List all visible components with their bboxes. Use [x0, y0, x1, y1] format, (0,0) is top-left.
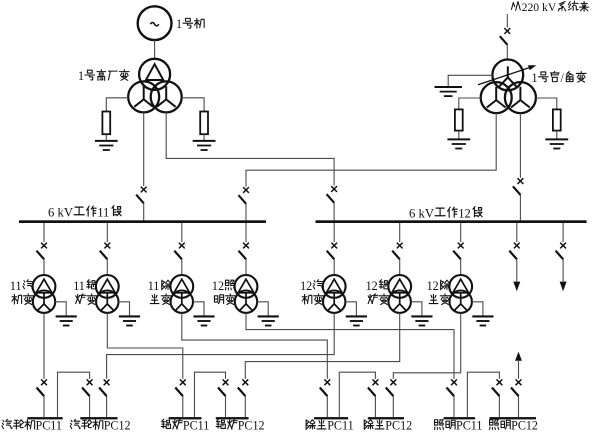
wire breaker to transformer (T12g 12锅炉变) — [399, 259, 401, 275]
ground of T12z 12照明变 — [258, 316, 279, 325]
ground of T12q 12汽机变 — [346, 316, 367, 325]
svg-text:6 kV: 6 kV — [48, 205, 74, 219]
label 锅炉PC12 — [216, 419, 264, 433]
label T12z 12照明变 line1 — [212, 279, 235, 293]
arrester R1 (left of T1H) — [102, 112, 110, 135]
breaker (汽轮机PC11 incoming) — [37, 379, 47, 396]
wire 12汽机变 to 汽轮机PC12 breaker — [107, 313, 335, 379]
transformer T11g 11锅炉变 LV winding (wye) — [96, 291, 118, 313]
feeder breaker (T11g 11锅炉变) — [100, 243, 110, 260]
ground of T11c 11除尘变 — [193, 316, 214, 325]
wire breaker to bus (照明PC12 incoming) — [518, 396, 520, 417]
wire bus to breaker (spare feeder 2 bus 12) — [562, 223, 564, 242]
feeder breaker (T12z 12照明变) — [239, 243, 249, 260]
breaker QF0 on 220kV lead — [500, 28, 510, 45]
svg-text:1: 1 — [176, 17, 182, 31]
label T11q 11汽机变 line1 — [10, 279, 33, 293]
svg-text:12: 12 — [300, 279, 312, 293]
transformer T1H LV winding A (wye) — [128, 81, 159, 112]
wire T11c 11除尘变 to ground — [193, 302, 204, 317]
svg-text:12: 12 — [427, 279, 439, 293]
svg-text:11: 11 — [148, 279, 160, 293]
bus 汽轮机PC11 — [27, 417, 62, 419]
wire 12照明变 to 照明PC11 breaker — [246, 313, 454, 379]
wire breaker to transformer (T12q 12汽机变) — [333, 259, 335, 275]
svg-text:PC11: PC11 — [456, 419, 482, 433]
down arrow (spare feeder 2 bus 12) — [560, 282, 567, 292]
wire T1S neutral to ground — [448, 75, 492, 87]
svg-text:11: 11 — [73, 279, 85, 293]
label 1号启/备变 — [532, 71, 587, 85]
transformer T12c 12除尘变 HV winding (delta) — [449, 275, 472, 298]
bus 除尘PC12 — [368, 417, 404, 419]
svg-text:PC11: PC11 — [327, 419, 353, 433]
bus 6kV section 11 — [19, 220, 266, 223]
wire breaker to transformer (T12c 12除尘变) — [460, 259, 462, 275]
label T11c 11除尘变 line1 — [148, 279, 171, 293]
wire T1H winding A down to bus 11 — [143, 112, 145, 186]
transformer T11g 11锅炉变 HV winding (delta) — [96, 275, 119, 298]
label 除尘PC11 — [306, 419, 354, 433]
wire QF1 to bus 11 — [143, 203, 145, 220]
bus 除尘PC11 — [314, 417, 348, 419]
bus 照明PC11 — [444, 417, 476, 419]
wire T1S winding A to arrester — [459, 98, 481, 109]
breaker (锅炉PC12 incoming) — [238, 379, 248, 396]
svg-text:11: 11 — [97, 205, 109, 219]
svg-text:PC12: PC12 — [385, 419, 412, 433]
label 从220 kV系统来 — [511, 1, 588, 14]
breaker (汽轮机PC12 incoming) — [99, 379, 109, 396]
transformer T1S 1号启/备变 HV winding (wye) — [492, 60, 523, 91]
ground under R3 — [447, 139, 470, 148]
breaker (除尘PC11 incoming) — [320, 379, 330, 396]
wire QF4 to bus 12 — [519, 195, 521, 221]
label T11q 11汽机变 line2 — [12, 294, 33, 305]
transformer T11q 11汽机变 HV winding (delta) — [33, 275, 56, 298]
wire breaker to transformer (T11q 11汽机变) — [43, 259, 45, 275]
generator G1 (1号机) — [138, 6, 172, 40]
svg-text:6 kV: 6 kV — [409, 206, 435, 220]
transformer T1S LV winding B (wye) — [505, 82, 536, 113]
breaker (除尘PC12 tie) — [368, 379, 378, 396]
wire breaker to transformer (T12z 12照明变) — [245, 259, 247, 275]
wire breaker to bus (照明PC12 tie) — [498, 396, 500, 417]
label 汽轮机PC11 — [2, 419, 62, 433]
feeder breaker (T12g 12锅炉变) — [392, 243, 402, 260]
label 除尘PC12 — [364, 419, 412, 433]
wire bus to feeder breaker (T11g 11锅炉变) — [106, 223, 108, 242]
svg-text:220 kV: 220 kV — [522, 1, 557, 14]
wire T11g 11锅炉变 to ground — [119, 302, 130, 317]
arrester R4 (right of T1S) — [553, 109, 561, 130]
label 锅炉PC11 — [161, 419, 209, 433]
transformer T11q 11汽机变 LV winding (wye) — [33, 291, 55, 313]
label T11g 11锅炉变 line2 — [76, 294, 97, 305]
svg-text:PC11: PC11 — [183, 419, 209, 433]
breaker QF3 incoming bus 12 left — [327, 186, 337, 203]
label 6 kV工作11段 — [48, 205, 121, 219]
wire bus to feeder breaker (T12z 12照明变) — [245, 223, 247, 242]
wire T1S winding A to bus 11 (jumper) — [246, 113, 496, 187]
label T11c 11除尘变 line2 — [150, 294, 171, 305]
wire breaker to transformer (T11g 11锅炉变) — [106, 259, 108, 275]
wire 11汽机变 to 汽轮机PC11 breaker — [43, 313, 45, 379]
transformer T12q 12汽机变 LV winding (wye) — [323, 291, 345, 313]
tie wire 除尘PC11-PC12 — [339, 372, 375, 417]
tie wire 锅炉PC11-PC12 — [195, 372, 226, 417]
feeder breaker (T12q 12汽机变) — [327, 243, 337, 260]
wire breaker down (spare feeder 2 bus 12) — [562, 259, 564, 281]
svg-text:PC12: PC12 — [511, 419, 538, 433]
wire QF3 to bus 12 — [333, 203, 335, 221]
up arrow supply to 照明PC12 — [515, 352, 522, 379]
label T12g 12锅炉变 line1 — [366, 279, 389, 293]
wire T1H winding A to arrester — [106, 98, 128, 112]
wire bus to feeder breaker (T11c 11除尘变) — [181, 223, 183, 242]
transformer T1H 1号高厂变 HV winding (delta) — [139, 59, 170, 90]
tie wire 汽轮机PC11-PC12 — [58, 372, 90, 417]
wire 220kV incoming — [506, 14, 508, 28]
wire breaker to bus (照明PC11 incoming) — [453, 396, 455, 417]
feeder breaker (T11c 11除尘变) — [174, 243, 184, 260]
bus 6kV section 12 — [316, 220, 587, 223]
breaker (照明PC12 incoming) — [511, 379, 521, 396]
svg-text:1: 1 — [78, 69, 84, 83]
ground of T12g 12锅炉变 — [411, 316, 432, 325]
arrester R3 (left of T1S) — [455, 109, 463, 130]
wire T12z 12照明变 to ground — [257, 302, 268, 317]
wire bus to feeder breaker (T11q 11汽机变) — [43, 223, 45, 242]
svg-text:12: 12 — [212, 279, 224, 293]
wire breaker to bus (除尘PC11 incoming) — [326, 396, 328, 417]
wire T1S winding B to arrester — [536, 98, 557, 109]
ground of T11g 11锅炉变 — [119, 316, 140, 325]
wire breaker down (spare feeder 1 bus 12) — [516, 259, 518, 281]
label T12g 12锅炉变 line2 — [368, 294, 389, 305]
label T12q 12汽机变 line1 — [300, 279, 323, 293]
OLTC arrow through T1S — [478, 65, 536, 85]
ground under R1 — [95, 141, 118, 150]
ground at T1S neutral — [434, 87, 462, 96]
wire bus to feeder breaker (T12g 12锅炉变) — [399, 223, 401, 242]
breaker (除尘PC12 incoming) — [386, 379, 396, 396]
wire generator to transformer — [154, 40, 156, 59]
label 照明PC11 — [434, 419, 482, 433]
transformer T12g 12锅炉变 LV winding (wye) — [389, 291, 411, 313]
label 1号高厂变 — [78, 69, 129, 83]
wire bus to feeder breaker (T12q 12汽机变) — [333, 223, 335, 242]
label T12z 12照明变 line2 — [214, 294, 235, 305]
svg-text:12: 12 — [366, 279, 378, 293]
label 1号机 — [176, 17, 204, 31]
wire 11锅炉变 to 锅炉PC11 breaker — [107, 313, 183, 379]
label T12c 12除尘变 line2 — [429, 294, 450, 305]
tie wire 照明PC11-PC12 — [467, 372, 499, 417]
down arrow (spare feeder 1 bus 12) — [513, 282, 520, 292]
transformer T12q 12汽机变 HV winding (delta) — [323, 275, 346, 298]
wire 12除尘变 to 除尘PC12 breaker — [393, 313, 460, 379]
transformer T1S LV winding A (wye) — [481, 82, 512, 113]
wire breaker to bus (锅炉PC12 tie) — [225, 396, 227, 417]
bus 锅炉PC11 — [169, 417, 202, 419]
label 汽轮机PC12 — [70, 419, 130, 433]
breaker (spare feeder 2 bus 12) — [556, 243, 566, 260]
ground of T11q 11汽机变 — [56, 316, 77, 325]
feeder breaker (T11q 11汽机变) — [37, 243, 47, 260]
breaker (spare feeder 1 bus 12) — [509, 243, 519, 260]
wire bus to breaker (spare feeder 1 bus 12) — [516, 223, 518, 242]
wire T1S winding B down to bus 12 — [519, 113, 521, 178]
bus 汽轮机PC12 — [80, 417, 117, 419]
transformer T12c 12除尘变 LV winding (wye) — [450, 291, 472, 313]
breaker (照明PC12 tie) — [492, 379, 502, 396]
label 6 kV工作12段 — [409, 206, 482, 220]
breaker (照明PC11 incoming) — [447, 379, 457, 396]
breaker (锅炉PC12 tie) — [218, 379, 228, 396]
wire arrester R2 to ground — [203, 134, 205, 141]
transformer T11c 11除尘变 HV winding (delta) — [170, 275, 193, 298]
wire 12锅炉变 to 锅炉PC12 breaker — [245, 313, 399, 379]
wire T12c 12除尘变 to ground — [472, 302, 483, 317]
wire T11q 11汽机变 to ground — [55, 302, 66, 317]
feeder breaker (T12c 12除尘变) — [453, 243, 463, 260]
wire QF2 to bus 11 — [245, 204, 247, 221]
ground of T12c 12除尘变 — [472, 316, 493, 325]
arrester R2 (right of T1H) — [200, 112, 208, 135]
wire T1H winding B to bus 12 (jumper) — [166, 112, 334, 185]
wire breaker to bus (汽轮机PC11 incoming) — [43, 396, 45, 417]
wire bus to feeder breaker (T12c 12除尘变) — [460, 223, 462, 242]
svg-text:PC12: PC12 — [104, 419, 131, 433]
breaker QF2 incoming bus 11 right — [239, 187, 249, 204]
transformer T1H LV winding B (wye) — [151, 81, 182, 112]
wire arrester R1 to ground — [105, 134, 107, 141]
label 照明PC12 — [490, 419, 538, 433]
svg-text:12: 12 — [458, 206, 471, 220]
ground under R2 — [193, 141, 216, 150]
wire breaker to bus (汽轮机PC12 incoming) — [106, 396, 108, 417]
wire breaker to transformer (T11c 11除尘变) — [181, 259, 183, 275]
breaker QF1 incoming bus 11 left — [136, 187, 146, 204]
svg-text:PC11: PC11 — [36, 419, 62, 433]
label T12c 12除尘变 line1 — [427, 279, 450, 293]
breaker QF4 incoming bus 12 right — [513, 178, 523, 195]
wire breaker to bus (除尘PC12 tie) — [374, 396, 376, 417]
label T11g 11锅炉变 line1 — [73, 279, 96, 293]
transformer T12g 12锅炉变 HV winding (delta) — [388, 275, 411, 298]
svg-text:PC12: PC12 — [238, 419, 265, 433]
breaker (汽轮机PC12 tie) — [82, 379, 92, 396]
wire breaker to bus (锅炉PC12 incoming) — [244, 396, 246, 417]
wire T1H winding B to arrester — [182, 98, 204, 112]
breaker (锅炉PC11 incoming) — [175, 379, 185, 396]
transformer T11c 11除尘变 LV winding (wye) — [171, 291, 193, 313]
transformer T12z 12照明变 HV winding (delta) — [235, 275, 258, 298]
wire T12q 12汽机变 to ground — [345, 302, 356, 317]
transformer T12z 12照明变 LV winding (wye) — [235, 291, 257, 313]
ground under R4 — [545, 139, 568, 148]
bus 照明PC12 — [490, 417, 537, 419]
svg-text:1: 1 — [532, 71, 538, 85]
wire arrester R4 to ground — [556, 131, 558, 140]
wire arrester R3 to ground — [458, 131, 460, 140]
label T12q 12汽机变 line2 — [302, 294, 323, 305]
wire breaker to bus (锅炉PC11 incoming) — [182, 396, 184, 417]
wire T12g 12锅炉变 to ground — [411, 302, 422, 317]
svg-text:11: 11 — [10, 279, 22, 293]
wire breaker to bus (汽轮机PC12 tie) — [89, 396, 91, 417]
wire 11除尘变 to 除尘PC11 breaker — [182, 313, 327, 379]
bus 锅炉PC12 — [216, 417, 249, 419]
wire breaker QF0 to T1S — [506, 45, 508, 60]
wire breaker to bus (除尘PC12 incoming) — [392, 396, 394, 417]
